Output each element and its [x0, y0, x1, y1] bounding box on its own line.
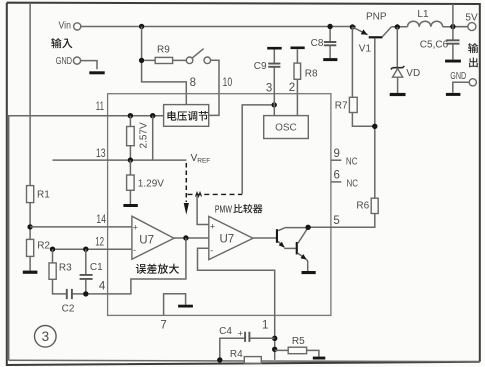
- wire Vref drop: [152, 116, 154, 160]
- svg-text:Vin: Vin: [59, 21, 71, 32]
- figure number circle 3: [35, 326, 57, 348]
- node pin11/2.57V junction: [128, 113, 133, 118]
- wire Vin drop to R9 and pin 8: [142, 27, 187, 105]
- op-amp U7 error amplifier: [132, 216, 174, 259]
- wire PWM + input: [197, 195, 209, 225]
- svg-text:+: +: [210, 222, 215, 232]
- svg-text:10: 10: [223, 77, 233, 89]
- svg-text:NC: NC: [346, 157, 358, 168]
- svg-text:4: 4: [99, 281, 106, 293]
- resistor R4: [230, 349, 261, 363]
- svg-text:R1: R1: [37, 190, 50, 201]
- wire pin 11 rail: [9, 116, 164, 361]
- svg-text:13: 13: [96, 148, 106, 160]
- wire EA feedback to pin 4: [108, 238, 186, 294]
- resistor R8: [291, 47, 319, 116]
- label 输入: [51, 38, 72, 48]
- wire EA output: [174, 237, 209, 239]
- node rail C4 junction: [217, 357, 222, 362]
- resistor R6: [308, 198, 378, 227]
- svg-text:C8: C8: [311, 38, 324, 49]
- capacitor C4: [219, 326, 275, 360]
- svg-text:R5: R5: [292, 336, 305, 347]
- svg-text:9: 9: [334, 148, 340, 160]
- box OSC: [264, 116, 309, 139]
- node V1 collector junction: [395, 24, 400, 29]
- node pin11/Vref junction: [150, 113, 155, 118]
- svg-text:U7: U7: [220, 234, 235, 246]
- svg-text:C4: C4: [219, 326, 232, 337]
- node EA output junction: [183, 235, 188, 240]
- svg-text:2.57V: 2.57V: [139, 122, 150, 148]
- svg-text:14: 14: [96, 214, 106, 226]
- node C8 junction: [327, 24, 332, 29]
- svg-text:VD: VD: [406, 68, 420, 79]
- capacitor C9: [254, 47, 282, 116]
- capacitor C5,C6: [420, 27, 461, 63]
- node C1 top junction: [83, 247, 88, 252]
- node C1 bottom junction: [83, 291, 88, 296]
- terminal Vin: [59, 21, 81, 32]
- label 误差放大: [136, 264, 179, 274]
- capacitor C2: [53, 279, 75, 314]
- ground (R5): [313, 357, 326, 360]
- label 输出: [468, 43, 478, 67]
- dashed Vref arrow line: [184, 163, 189, 215]
- node Vin junction: [139, 24, 144, 29]
- svg-text:NC: NC: [347, 178, 359, 189]
- svg-text:R6: R6: [356, 201, 369, 212]
- svg-text:-: -: [210, 245, 213, 255]
- node V1 emitter junction: [350, 24, 355, 29]
- svg-text:+: +: [133, 222, 138, 232]
- wire PWM output: [253, 237, 276, 239]
- transistor Q1 driver: [276, 228, 308, 249]
- wire pin 13 line: [53, 159, 187, 161]
- node R5 junction: [272, 347, 277, 352]
- svg-text:1: 1: [262, 320, 268, 332]
- svg-text:C1: C1: [90, 262, 103, 273]
- diode VD zener: [390, 27, 421, 96]
- svg-text:GND: GND: [450, 71, 466, 82]
- svg-text:5: 5: [333, 215, 339, 227]
- node R3 junction: [50, 247, 55, 252]
- terminal GND input: [56, 56, 81, 67]
- svg-text:+: +: [238, 329, 243, 339]
- resistor R5: [275, 336, 319, 356]
- wire switch to pin 10 into 电压调节: [209, 60, 219, 115]
- node pin3/OSC junction: [272, 102, 277, 107]
- IC U7 package box: [108, 94, 331, 316]
- resistor R7: [335, 27, 375, 126]
- svg-text:R7: R7: [335, 100, 348, 111]
- svg-text:R9: R9: [157, 45, 170, 56]
- svg-text:C5,C6: C5,C6: [420, 39, 449, 50]
- svg-text:12: 12: [95, 237, 104, 249]
- terminal 5V: [456, 12, 478, 30]
- wire Vin rail: [81, 26, 356, 28]
- terminal GND output: [446, 71, 477, 96]
- wire pin 4 external: [72, 293, 108, 295]
- svg-text:R4: R4: [230, 349, 243, 360]
- svg-text:R3: R3: [59, 263, 72, 274]
- pin 6 stub NC: [331, 170, 358, 190]
- ground (R2): [23, 271, 38, 274]
- pin 9 stub NC: [331, 148, 358, 168]
- artifact marks: [196, 193, 202, 197]
- svg-text:8: 8: [190, 77, 196, 89]
- ground (Q2 emitter): [302, 271, 316, 274]
- transistor V1 PNP: [352, 11, 391, 198]
- wire PWM - input to pin 1: [198, 248, 275, 360]
- wire pin 12: [53, 248, 132, 250]
- svg-text:R8: R8: [305, 68, 318, 79]
- wire OSC node to dashed line: [242, 105, 274, 194]
- node pin 5 junction: [305, 225, 310, 230]
- svg-text:2: 2: [289, 82, 295, 94]
- svg-text:-: -: [133, 245, 136, 255]
- svg-text:R2: R2: [37, 240, 50, 251]
- capacitor C8: [311, 27, 338, 62]
- wire GND input to ground: [81, 61, 97, 70]
- resistor R9: [144, 45, 186, 64]
- svg-text:OSC: OSC: [275, 123, 297, 134]
- resistor R1: [27, 3, 51, 240]
- node R1/R2 pin14 junction: [27, 224, 32, 229]
- reference 2.57V resistor: [127, 116, 150, 160]
- ground (1.29V): [123, 204, 137, 207]
- svg-text:PNP: PNP: [366, 11, 387, 22]
- pin 7 wire and ground: [160, 294, 193, 332]
- reference 1.29V resistor: [127, 160, 165, 204]
- svg-text:11: 11: [96, 101, 104, 113]
- svg-text:6: 6: [334, 170, 340, 182]
- capacitor C1: [80, 249, 104, 294]
- svg-text:3: 3: [266, 82, 272, 94]
- node 13 divider junction: [128, 157, 133, 162]
- wire pin 14: [30, 226, 132, 228]
- comparator U7 PWM: [209, 216, 253, 259]
- node: bottom ground rail: [9, 360, 480, 361]
- switch S1: [186, 49, 210, 64]
- svg-text:1.29V: 1.29V: [138, 179, 164, 190]
- dashed horizontal annotation: [188, 193, 243, 195]
- svg-text:GND: GND: [56, 56, 72, 67]
- transistor Q2 driver: [296, 228, 308, 272]
- svg-text:U7: U7: [139, 235, 154, 247]
- node C4 junction: [272, 336, 277, 341]
- svg-text:5V: 5V: [465, 12, 478, 23]
- inductor L1: [408, 9, 443, 27]
- resistor R2: [27, 239, 51, 270]
- node output junction: [450, 24, 455, 29]
- svg-text:V1: V1: [359, 43, 372, 54]
- node R9 junction: [139, 58, 144, 63]
- wire output feedback to top border: [452, 4, 454, 27]
- ground (input): [89, 71, 104, 74]
- node R7/base junction: [372, 124, 377, 129]
- svg-text:C9: C9: [254, 61, 267, 72]
- svg-text:7: 7: [160, 319, 166, 331]
- resistor R3: [49, 249, 72, 279]
- svg-text:C2: C2: [62, 304, 75, 315]
- box 电压调节: [164, 105, 209, 127]
- svg-text:PMW: PMW: [215, 203, 232, 215]
- svg-text:L1: L1: [417, 9, 429, 20]
- svg-text:3: 3: [42, 329, 50, 344]
- wire collector to L1 and output node: [391, 26, 468, 28]
